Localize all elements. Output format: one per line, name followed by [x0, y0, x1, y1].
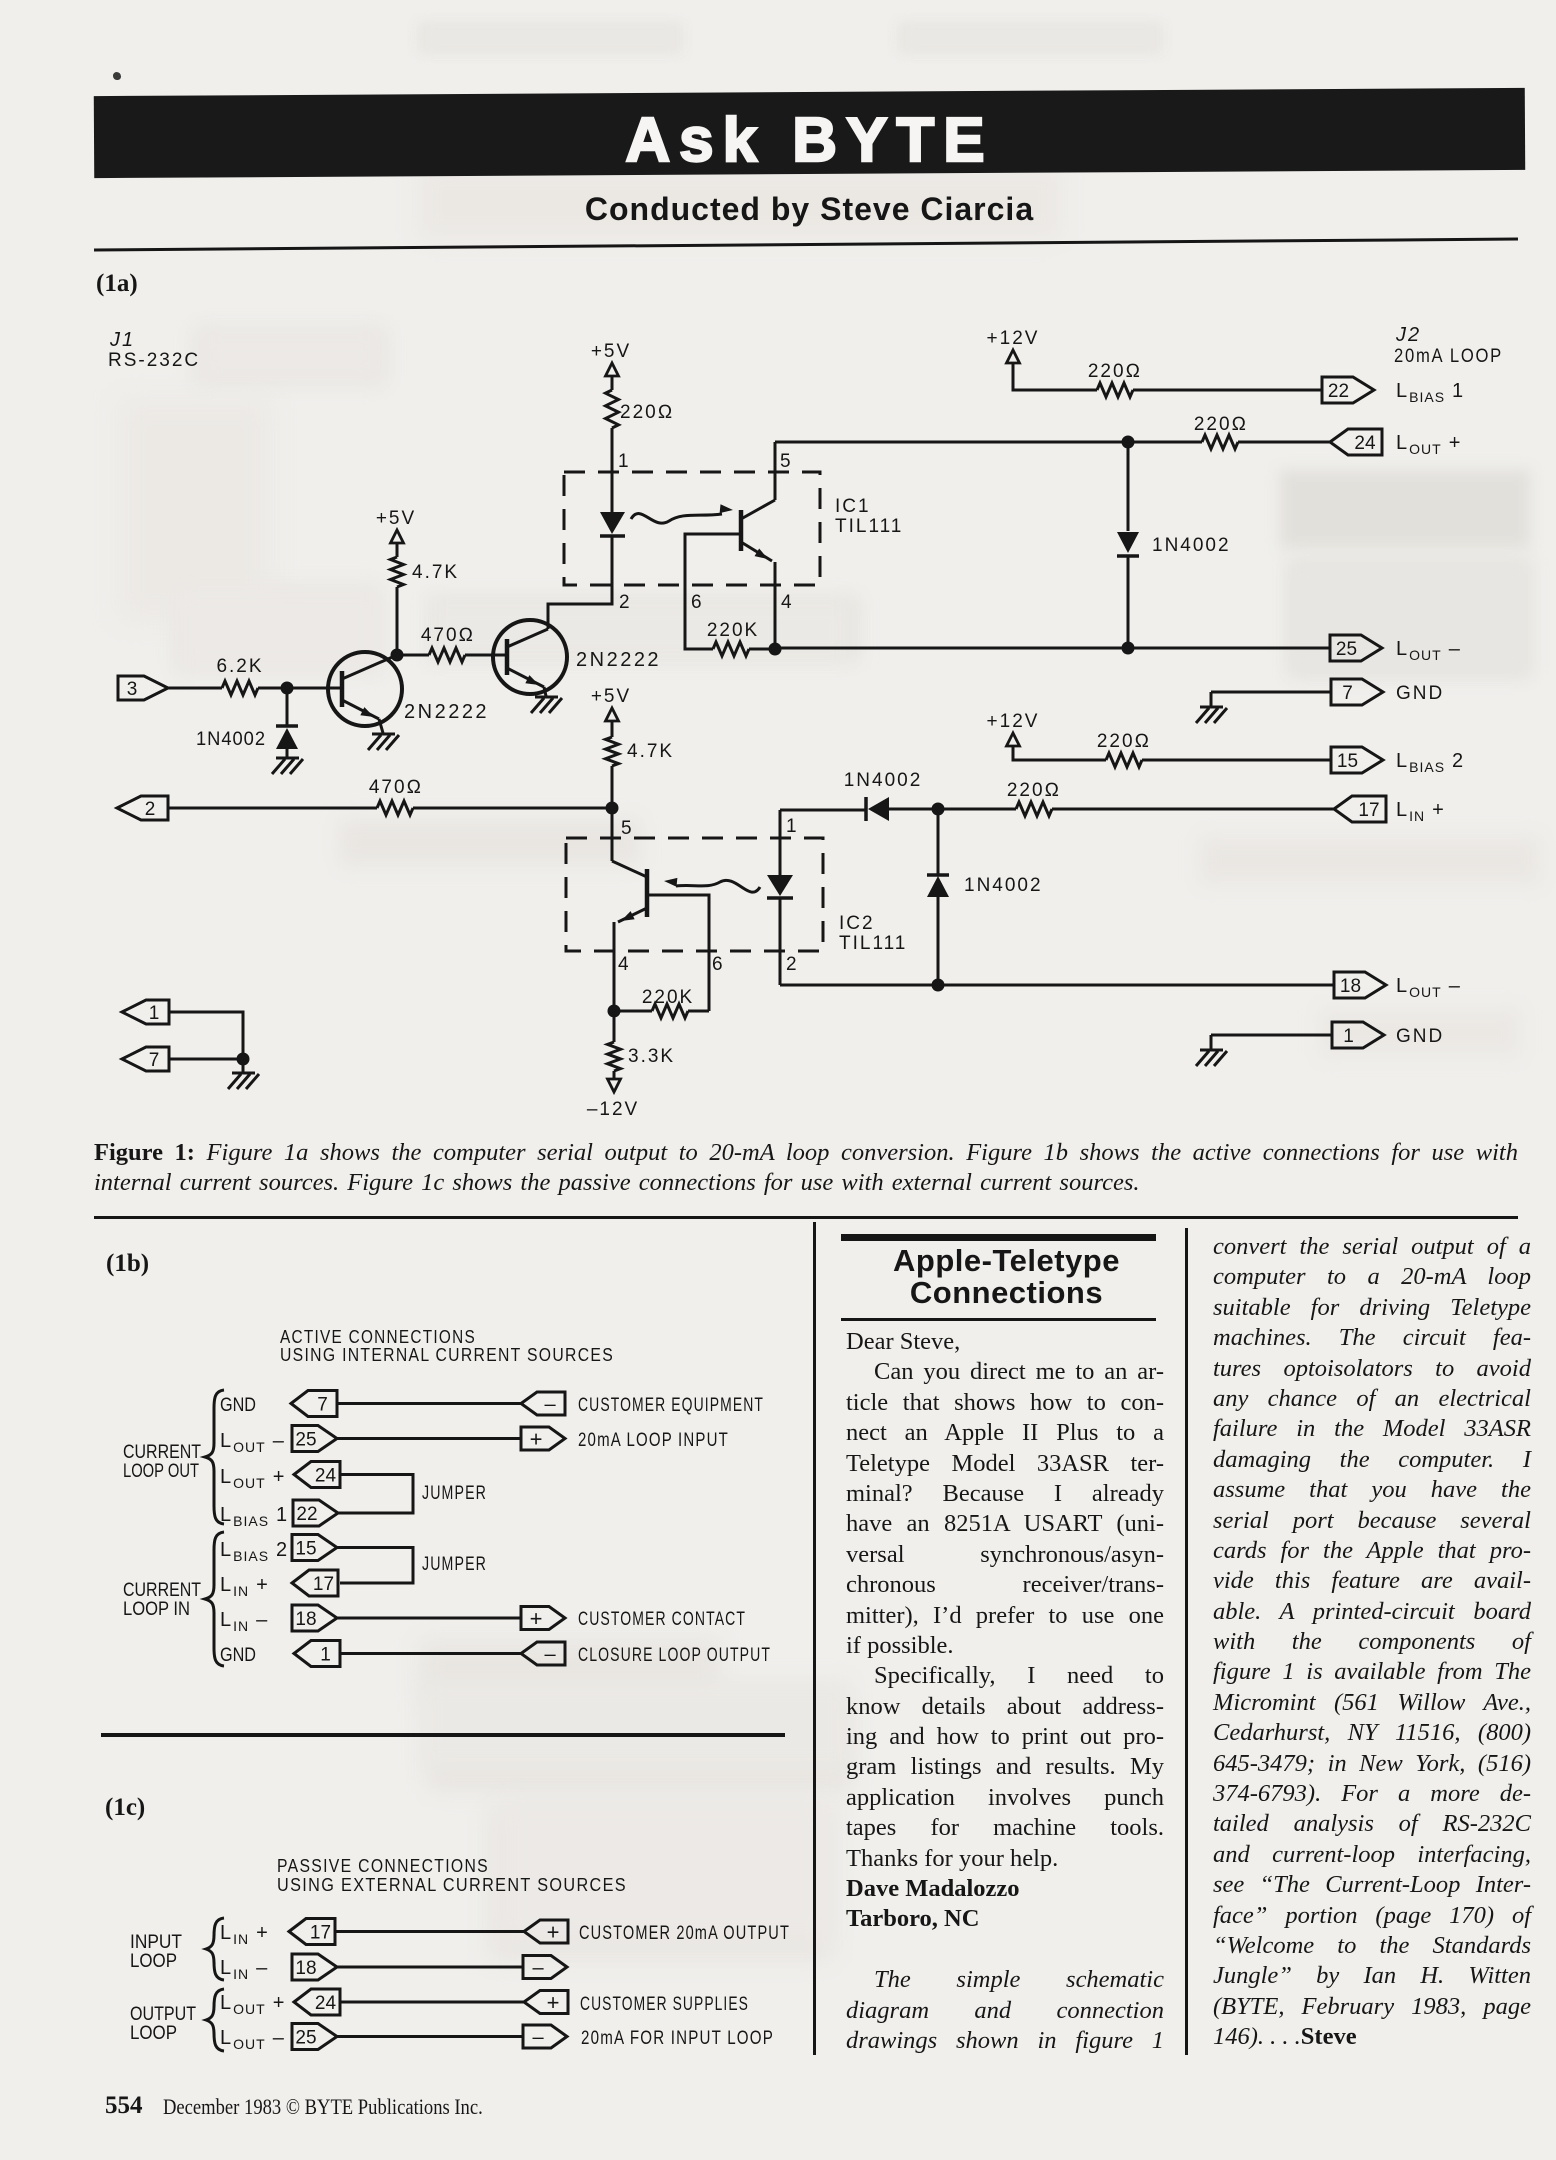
- connector pin 24 (1b): [294, 1462, 340, 1488]
- svg-text:6.2K: 6.2K: [216, 656, 263, 677]
- customer 20mA output terminal: [524, 1920, 790, 1945]
- wire R5 to emitter node: [749, 648, 775, 651]
- IC2 pin 2 label: [786, 954, 797, 975]
- svg-text:LBIAS2: LBIAS2: [1396, 750, 1464, 775]
- connector pin 18 (1b): [292, 1605, 521, 1631]
- middle column text: [846, 1327, 1164, 2056]
- 20mA for input loop terminal: [523, 2025, 774, 2049]
- rule between 1b and 1c: [101, 1733, 785, 1737]
- label GND (1b row8): [220, 1645, 256, 1666]
- label GND (1b row1): [220, 1395, 256, 1416]
- svg-text:J2: J2: [1395, 324, 1421, 346]
- resistor R8 220&#8486;: [1097, 731, 1151, 767]
- svg-text:220Ω: 220Ω: [1007, 780, 1061, 801]
- label GND (J2 pin1): [1396, 1026, 1444, 1047]
- power +5V (IC1 LED): [591, 341, 631, 376]
- svg-text:220K: 220K: [707, 620, 759, 641]
- IC1 LED: [600, 512, 625, 536]
- label LBIAS1 (1b): [220, 1504, 288, 1529]
- svg-text:1: 1: [786, 816, 797, 837]
- svg-text:+5V: +5V: [376, 508, 416, 529]
- svg-text:OUTPUT: OUTPUT: [130, 2004, 196, 2025]
- connector J2 pin 25: [1330, 635, 1382, 661]
- svg-text:+5V: +5V: [591, 341, 631, 362]
- svg-text:24: 24: [1354, 433, 1376, 454]
- svg-text:220Ω: 220Ω: [620, 402, 674, 423]
- figure label (1a): [96, 270, 138, 298]
- brace current loop in: [205, 1532, 224, 1666]
- brace current loop out: [205, 1390, 224, 1524]
- svg-text:7: 7: [149, 1050, 160, 1071]
- label LIN- (1b): [220, 1609, 268, 1634]
- connector J1 pin 7b: [122, 1047, 169, 1071]
- scan speck top-left: [113, 72, 121, 80]
- middle column: letter heading: [841, 1234, 1156, 1241]
- wire IC1 base to R5: [685, 534, 741, 649]
- svg-text:CUSTOMER 20mA OUTPUT: CUSTOMER 20mA OUTPUT: [579, 1923, 790, 1944]
- IC1 optocoupler dashed box: [564, 472, 820, 585]
- IC2 pin 1 label: [786, 816, 797, 837]
- node IC1 emitter junction: [769, 643, 782, 656]
- svg-text:24: 24: [315, 1466, 337, 1487]
- jumper 24-22: [337, 1475, 487, 1514]
- svg-text:J1: J1: [109, 329, 135, 351]
- connector pin 17 (1b): [292, 1570, 338, 1596]
- svg-text:4: 4: [618, 954, 629, 975]
- svg-text:LBIAS1: LBIAS1: [1396, 380, 1464, 405]
- IC2 phototransistor: [612, 808, 647, 1005]
- wire +12V to R7: [1013, 363, 1097, 390]
- connector J2 pin 24: [1330, 429, 1382, 455]
- svg-text:220Ω: 220Ω: [1194, 414, 1248, 435]
- svg-text:+: +: [547, 1990, 560, 2015]
- IC2 part label: [839, 913, 907, 954]
- svg-text:3.3K: 3.3K: [628, 1046, 675, 1067]
- wire R8 to pin 15: [1142, 759, 1331, 762]
- IC1 pin 6 label: [691, 592, 702, 613]
- svg-text:4.7K: 4.7K: [412, 562, 459, 583]
- svg-text:USING INTERNAL CURRENT SOURCES: USING INTERNAL CURRENT SOURCES: [280, 1345, 614, 1365]
- svg-text:17: 17: [1358, 800, 1379, 821]
- svg-text:3: 3: [127, 679, 138, 700]
- svg-text:1: 1: [1343, 1026, 1354, 1047]
- svg-text:20mA LOOP: 20mA LOOP: [1394, 346, 1503, 367]
- svg-text:CLOSURE LOOP OUTPUT: CLOSURE LOOP OUTPUT: [578, 1645, 771, 1666]
- resistor R1 6.2K: [216, 656, 263, 695]
- connector pin 17 (1c): [289, 1919, 524, 1945]
- svg-text:25: 25: [295, 1430, 316, 1451]
- right column text: [1213, 1232, 1531, 2053]
- ground below Q1: [368, 734, 399, 750]
- bleed-through ghosts (back layer): [0, 0, 1556, 1]
- power +5V (Q1 collector pullup): [376, 508, 416, 543]
- svg-text:LIN+: LIN+: [220, 1922, 269, 1947]
- header subtitle: [94, 191, 1525, 228]
- svg-text:CUSTOMER SUPPLIES: CUSTOMER SUPPLIES: [580, 1994, 749, 2015]
- 20mA loop input terminal: [521, 1427, 729, 1452]
- wire IC1 pin5 to LOUT+ rail: [775, 441, 1202, 444]
- wire R6 to pin 24: [1238, 441, 1330, 444]
- wire +12V to R8: [1013, 746, 1106, 760]
- svg-text:+: +: [530, 1606, 543, 1631]
- svg-text:GND: GND: [1396, 683, 1444, 704]
- svg-text:25: 25: [295, 2028, 316, 2049]
- resistor R3 470&#8486;: [421, 625, 475, 662]
- svg-text:6: 6: [691, 592, 702, 613]
- wire R10 to node: [611, 766, 614, 808]
- svg-text:TIL111: TIL111: [839, 933, 907, 954]
- connector J2 label: [1394, 324, 1503, 367]
- svg-text:18: 18: [295, 1958, 316, 1979]
- svg-text:1N4002: 1N4002: [844, 770, 923, 791]
- caption rule: [94, 1216, 1518, 1219]
- wire Q2 collector to IC1 pin 2: [548, 535, 612, 629]
- closure loop output terminal: [521, 1642, 771, 1666]
- label LIN+ (1b): [220, 1574, 269, 1599]
- label LIN- (1c): [220, 1957, 268, 1982]
- header black banner: [94, 88, 1525, 178]
- wire +5V to R2: [396, 543, 399, 557]
- connector pin 25 (1c): [292, 2024, 523, 2050]
- node D2 top junction: [1122, 436, 1135, 449]
- svg-text:LOUT–: LOUT–: [220, 2027, 285, 2052]
- IC1 part label: [835, 496, 903, 537]
- label CURRENT LOOP IN: [123, 1580, 201, 1620]
- svg-text:GND: GND: [220, 1645, 256, 1666]
- column divider 1: [813, 1222, 816, 2055]
- wire R13 to pin 17: [1052, 808, 1334, 811]
- svg-text:LOUT–: LOUT–: [220, 1430, 285, 1455]
- transistor Q1 value label: [404, 701, 489, 723]
- svg-text:470Ω: 470Ω: [369, 777, 423, 798]
- svg-text:LOUT+: LOUT+: [220, 1992, 285, 2017]
- label CURRENT LOOP OUT: [123, 1442, 201, 1482]
- connector pin 1 (1b): [294, 1641, 521, 1667]
- wire pin1(J2) to ground: [1211, 1034, 1332, 1037]
- svg-text:220Ω: 220Ω: [1088, 361, 1142, 382]
- svg-text:–: –: [544, 1644, 556, 1666]
- IC2 LED: [767, 810, 793, 985]
- svg-text:17: 17: [313, 1574, 334, 1595]
- label L BIAS 2: [1396, 750, 1464, 775]
- svg-text:JUMPER: JUMPER: [422, 1554, 487, 1575]
- svg-text:LBIAS1: LBIAS1: [220, 1504, 288, 1529]
- wire R9 to IC2 node: [413, 807, 612, 810]
- resistor R2 4.7K: [391, 557, 460, 587]
- IC1 pin 2 label: [619, 592, 630, 613]
- svg-text:1N4002: 1N4002: [964, 875, 1043, 896]
- ground for pins 1/7: [228, 1059, 259, 1089]
- IC2 pin 6 label: [712, 954, 723, 975]
- transistor Q1 2N2222: [328, 652, 402, 733]
- IC1 pin 4 label: [781, 592, 792, 613]
- svg-text:25: 25: [1336, 639, 1357, 660]
- svg-text:IC1: IC1: [835, 496, 871, 517]
- svg-text:IC2: IC2: [839, 913, 875, 934]
- wire IC2 LED anode to D3: [780, 809, 866, 812]
- svg-text:220K: 220K: [642, 987, 694, 1008]
- svg-text:+12V: +12V: [987, 328, 1040, 349]
- column divider 2: [1185, 1228, 1188, 2055]
- wire R3 to Q2 base: [465, 654, 506, 657]
- svg-text:–: –: [532, 1957, 544, 1979]
- IC2 pin 4 label: [618, 954, 629, 975]
- connector J2 pin 7: [1331, 679, 1383, 705]
- wire IC2 base to R11: [647, 895, 709, 1011]
- resistor R10 4.7K: [606, 737, 675, 766]
- connector pin 15 (1b): [292, 1535, 337, 1561]
- label OUTPUT LOOP: [130, 2004, 196, 2044]
- resistor R13 220&#8486;: [1007, 780, 1061, 816]
- ground below Q2: [531, 697, 562, 713]
- connector pin 25 (1b): [292, 1426, 521, 1452]
- power +5V (IC2 pullup): [591, 686, 631, 721]
- svg-text:GND: GND: [1396, 1026, 1444, 1047]
- node D4 top junction: [932, 803, 945, 816]
- wire pin3 to R1: [168, 687, 222, 690]
- wire pin7 to ground node: [169, 1058, 243, 1061]
- svg-text:LOUT+: LOUT+: [220, 1466, 285, 1491]
- svg-text:CURRENT: CURRENT: [123, 1442, 201, 1463]
- svg-text:1: 1: [320, 1645, 331, 1666]
- svg-text:2N2222: 2N2222: [404, 701, 489, 723]
- svg-text:1: 1: [149, 1003, 160, 1024]
- svg-text:+5V: +5V: [591, 686, 631, 707]
- wire node to R3: [397, 654, 429, 657]
- svg-text:5: 5: [621, 818, 632, 839]
- IC1 pin 1 label: [618, 451, 629, 472]
- ground below D1: [272, 758, 303, 774]
- node ground junction: [237, 1053, 250, 1066]
- svg-text:22: 22: [296, 1504, 317, 1525]
- svg-text:1: 1: [618, 451, 629, 472]
- resistor R11 220K: [642, 987, 694, 1018]
- svg-text:24: 24: [315, 1993, 337, 2014]
- svg-text:LOOP: LOOP: [130, 1951, 177, 1972]
- wire R11 to node: [614, 1010, 709, 1013]
- header rule: [94, 238, 1518, 252]
- svg-text:LOOP: LOOP: [130, 2023, 177, 2044]
- connector J1 pin 3: [118, 676, 168, 700]
- svg-text:15: 15: [1337, 751, 1358, 772]
- connector J2 pin 22: [1322, 377, 1374, 403]
- label LBIAS2 (1b): [220, 1539, 288, 1564]
- label L OUT +: [1396, 432, 1461, 457]
- svg-text:+: +: [547, 1920, 560, 1945]
- svg-text:JUMPER: JUMPER: [422, 1483, 487, 1504]
- svg-text:2: 2: [145, 799, 156, 820]
- wire R2 to Q1 collector node: [396, 587, 399, 655]
- jumper 15-17: [337, 1548, 487, 1584]
- svg-text:7: 7: [1342, 683, 1353, 704]
- ground for J2 pin 1: [1196, 1035, 1227, 1066]
- svg-text:+: +: [530, 1427, 543, 1452]
- connector J2 pin 1: [1332, 1022, 1384, 1048]
- ground for J2 pin 7: [1196, 692, 1227, 723]
- svg-text:LOOP IN: LOOP IN: [123, 1599, 190, 1620]
- wire R4 to IC1 LED anode: [611, 428, 614, 512]
- wire +5V to R4: [611, 376, 614, 390]
- wire pin2 to R9: [168, 807, 377, 810]
- figure label (1c): [105, 1794, 145, 1822]
- customer contact terminal: [521, 1606, 746, 1631]
- svg-text:TIL111: TIL111: [835, 516, 903, 537]
- transistor Q2 2N2222: [493, 620, 567, 696]
- connector J1 pin 1: [122, 1000, 169, 1024]
- resistor R5 220K: [707, 620, 759, 656]
- label LOUT- (1c): [220, 2027, 285, 2052]
- connector pin 18 (1c): [292, 1954, 523, 1980]
- svg-text:18: 18: [295, 1609, 316, 1630]
- figure 1c heading: [277, 1856, 627, 1895]
- svg-text:4: 4: [781, 592, 792, 613]
- label LOUT+ (1c): [220, 1992, 285, 2017]
- minus terminal (1c input loop): [523, 1956, 567, 1980]
- svg-text:6: 6: [712, 954, 723, 975]
- connector J2 pin 17: [1334, 796, 1386, 822]
- figure caption: [94, 1138, 1518, 1199]
- brace output loop (1c): [206, 1989, 224, 2051]
- label L BIAS 1: [1396, 380, 1464, 405]
- svg-text:7: 7: [317, 1395, 328, 1416]
- svg-text:1N4002: 1N4002: [196, 729, 266, 750]
- svg-text:LOUT–: LOUT–: [1396, 975, 1461, 1000]
- figure 1b heading: [280, 1327, 614, 1365]
- label LOUT- (1b): [220, 1430, 285, 1455]
- wire R7 to pin 22: [1133, 389, 1322, 392]
- svg-text:INPUT: INPUT: [130, 1932, 182, 1953]
- resistor R12 3.3K: [608, 1011, 676, 1071]
- transistor Q2 value label: [576, 649, 661, 671]
- resistor R7 220&#8486;: [1088, 361, 1142, 397]
- node D4 bottom junction: [932, 979, 945, 992]
- svg-text:LIN+: LIN+: [220, 1574, 269, 1599]
- diode D3 1N4002: [844, 770, 938, 821]
- opto arrow IC2: [664, 878, 760, 892]
- node D2 bottom junction: [1122, 642, 1135, 655]
- wire LOUT- rail: [775, 647, 1330, 650]
- svg-text:LOOP OUT: LOOP OUT: [123, 1461, 199, 1482]
- svg-text:17: 17: [310, 1923, 331, 1944]
- wire node to R13: [938, 808, 1016, 811]
- IC2 pin 5 label: [621, 818, 632, 839]
- diode D2 1N4002: [1117, 448, 1231, 643]
- svg-text:LBIAS2: LBIAS2: [220, 1539, 288, 1564]
- svg-text:USING EXTERNAL CURRENT SOURCES: USING EXTERNAL CURRENT SOURCES: [277, 1875, 627, 1895]
- svg-text:220Ω: 220Ω: [1097, 731, 1151, 752]
- svg-text:CUSTOMER EQUIPMENT: CUSTOMER EQUIPMENT: [578, 1395, 764, 1416]
- svg-text:LOUT–: LOUT–: [1396, 638, 1461, 663]
- svg-text:20mA FOR INPUT LOOP: 20mA FOR INPUT LOOP: [581, 2028, 774, 2049]
- resistor R9 470&#8486;: [369, 777, 423, 815]
- svg-text:LIN–: LIN–: [220, 1957, 268, 1982]
- svg-text:–12V: –12V: [587, 1099, 639, 1120]
- svg-text:+12V: +12V: [987, 711, 1040, 732]
- label GND (pin7): [1396, 683, 1444, 704]
- svg-text:LIN–: LIN–: [220, 1609, 268, 1634]
- resistor R4 220&#8486;: [606, 390, 675, 428]
- IC1 pin 5 label: [780, 451, 791, 472]
- svg-text:18: 18: [1340, 976, 1361, 997]
- IC2 optocoupler dashed box: [566, 838, 823, 951]
- svg-text:PASSIVE CONNECTIONS: PASSIVE CONNECTIONS: [277, 1856, 489, 1876]
- svg-text:15: 15: [295, 1539, 316, 1560]
- label L OUT - (pin18): [1396, 975, 1461, 1000]
- svg-text:–: –: [532, 2027, 544, 2049]
- svg-text:1N4002: 1N4002: [1152, 535, 1231, 556]
- label LIN+ (1c): [220, 1922, 269, 1947]
- connector J1 label: [108, 329, 200, 371]
- label LOUT+ (1b): [220, 1466, 285, 1491]
- svg-text:470Ω: 470Ω: [421, 625, 475, 646]
- node emitter/3.3K junction: [608, 1005, 621, 1018]
- footer: [105, 2092, 143, 2120]
- svg-text:5: 5: [780, 451, 791, 472]
- power +12V (LBIAS1): [987, 328, 1040, 363]
- IC1 phototransistor: [741, 442, 775, 649]
- diode D1 1N4002: [196, 694, 298, 757]
- resistor R6 220&#8486;: [1194, 414, 1248, 449]
- power -12V: [587, 1071, 639, 1120]
- opto arrow IC1: [631, 504, 733, 523]
- svg-text:GND: GND: [220, 1395, 256, 1416]
- connector pin 24 (1c): [294, 1989, 524, 2015]
- label L IN +: [1396, 799, 1445, 824]
- figure label (1b): [106, 1250, 149, 1278]
- power +12V (LBIAS2): [987, 711, 1040, 746]
- svg-text:LIN+: LIN+: [1396, 799, 1445, 824]
- wire pin1 down: [169, 1012, 243, 1059]
- connector pin 7 (1b): [291, 1391, 521, 1417]
- svg-text:22: 22: [1328, 381, 1349, 402]
- connector pin 22 (1b): [293, 1500, 338, 1526]
- node Q1 collector junction: [391, 649, 404, 662]
- svg-text:2: 2: [619, 592, 630, 613]
- connector J1 pin 2: [117, 796, 168, 820]
- svg-text:–: –: [544, 1394, 556, 1416]
- brace input loop (1c): [206, 1918, 224, 1980]
- connector J2 pin 15: [1331, 747, 1383, 773]
- svg-text:RS-232C: RS-232C: [108, 350, 200, 371]
- svg-text:CURRENT: CURRENT: [123, 1580, 201, 1601]
- node pin3/D1 junction: [281, 682, 294, 695]
- label L OUT - (pin25): [1396, 638, 1461, 663]
- svg-text:2N2222: 2N2222: [576, 649, 661, 671]
- customer equipment terminal: [521, 1392, 764, 1416]
- wire R1 to Q1 base: [258, 687, 340, 690]
- svg-text:2: 2: [786, 954, 797, 975]
- svg-text:ACTIVE CONNECTIONS: ACTIVE CONNECTIONS: [280, 1327, 476, 1347]
- diode D4 1N4002: [927, 809, 1043, 985]
- svg-text:4.7K: 4.7K: [627, 741, 674, 762]
- wire ground to pin 7: [1211, 691, 1331, 694]
- svg-text:20mA LOOP INPUT: 20mA LOOP INPUT: [578, 1430, 729, 1451]
- wire LOUT- (pin18) rail: [780, 984, 1334, 987]
- connector J2 pin 18: [1334, 972, 1386, 998]
- customer supplies terminal: [524, 1990, 749, 2015]
- svg-text:LOUT+: LOUT+: [1396, 432, 1461, 457]
- svg-text:CUSTOMER CONTACT: CUSTOMER CONTACT: [578, 1609, 746, 1630]
- node IC2 collector junction: [606, 802, 619, 815]
- label INPUT LOOP: [130, 1932, 182, 1972]
- wire +5V to R10: [611, 721, 614, 737]
